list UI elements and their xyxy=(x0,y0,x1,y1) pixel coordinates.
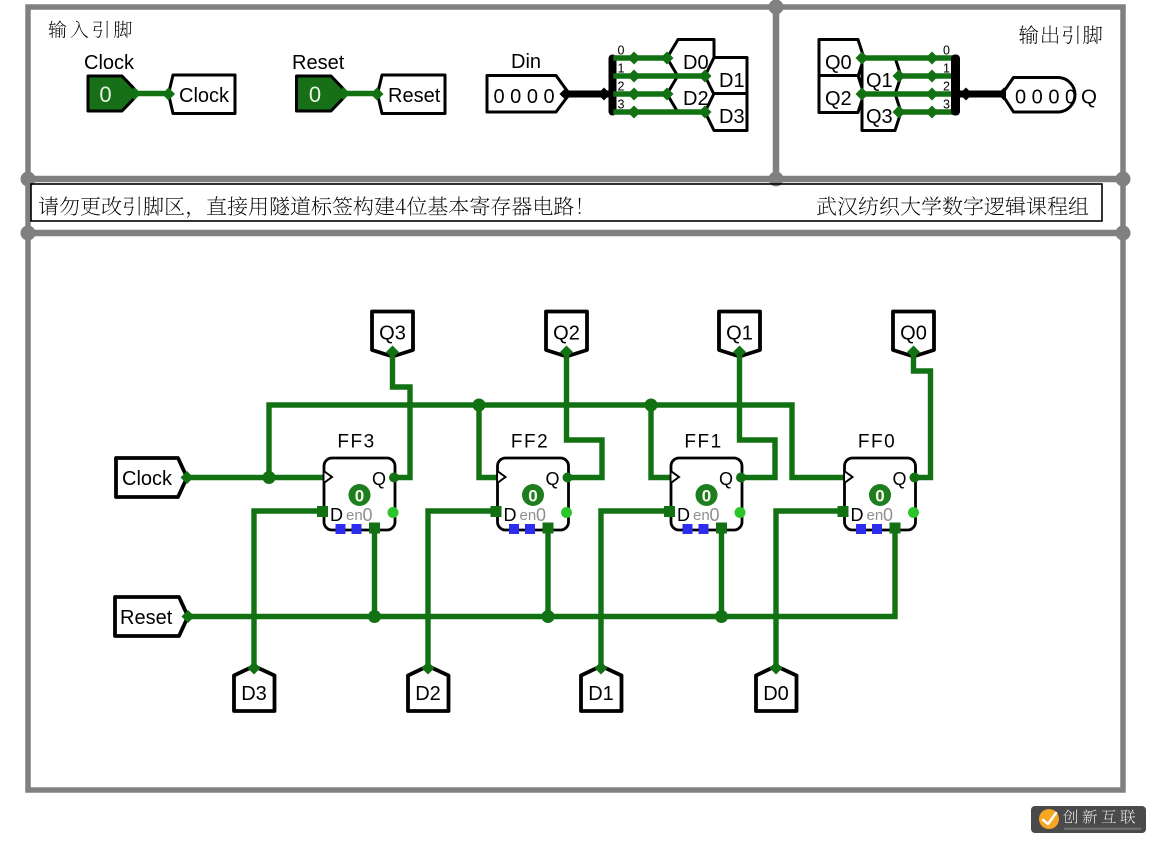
wire: reset drop to FF2 enable xyxy=(545,529,550,617)
pin end dot xyxy=(248,662,261,675)
wire: splitter bit0 to tunnel D0 xyxy=(616,55,667,60)
svg-text:0: 0 xyxy=(363,505,373,525)
frame: divider below notice band xyxy=(28,230,1123,237)
watermark subtext line xyxy=(1064,828,1141,831)
wire: tunnel Q3 to merger bit3 xyxy=(901,109,952,114)
wire xyxy=(959,91,1007,98)
frame junction dot xyxy=(769,0,784,15)
wire: clock drop to FF2 xyxy=(479,405,498,478)
svg-text:D3: D3 xyxy=(719,106,745,128)
pin end dot xyxy=(926,106,939,119)
svg-text:0 0 0 0: 0 0 0 0 xyxy=(494,86,555,108)
notice text right (course group) xyxy=(817,196,1088,215)
wire: reset drop to FF3 enable xyxy=(372,529,377,617)
watermark badge (创新互联 logo) xyxy=(1031,806,1146,833)
svg-text:Clock: Clock xyxy=(179,85,230,107)
svg-text:Clock: Clock xyxy=(84,52,135,74)
tunnel D1 (main area, points up) xyxy=(581,666,622,711)
wire: FF1 Q output to tunnel Q1 xyxy=(740,352,776,478)
wire: Clock pin to tunnel xyxy=(134,91,168,96)
wire: tunnel Q2 to merger bit2 xyxy=(864,91,952,96)
wire: splitter bit3 to tunnel D3 xyxy=(616,109,705,114)
flip-flop FF3 (D register subcircuit) xyxy=(317,432,399,535)
svg-text:D: D xyxy=(851,505,864,525)
tunnel Q1 (top) xyxy=(862,58,901,95)
wire: Clock tunnel to FF3 clock input xyxy=(187,475,324,480)
pin end dot xyxy=(699,70,712,83)
pin end dot xyxy=(128,87,141,100)
svg-text:D3: D3 xyxy=(241,683,267,705)
svg-text:FF0: FF0 xyxy=(858,432,896,453)
wire: Reset pin to tunnel xyxy=(343,91,377,96)
svg-text:Q3: Q3 xyxy=(866,106,893,128)
frame: divider below pin header boxes xyxy=(28,176,1123,183)
svg-text:en: en xyxy=(867,507,884,524)
pin end dot xyxy=(337,87,350,100)
section label output pins xyxy=(1019,25,1102,44)
wire: tunnel D2 to FF D input xyxy=(428,511,498,668)
svg-text:FF1: FF1 xyxy=(684,432,722,453)
junction: clock bus / FF2 drop xyxy=(473,399,486,412)
svg-text:Q1: Q1 xyxy=(866,70,893,92)
svg-text:0: 0 xyxy=(536,505,546,525)
svg-text:0: 0 xyxy=(309,82,321,107)
watermark text xyxy=(1063,810,1135,824)
merger bar (4x1) xyxy=(951,55,960,116)
svg-text:Q0: Q0 xyxy=(825,52,852,74)
frame junction dot xyxy=(769,172,784,187)
svg-text:0: 0 xyxy=(883,505,893,525)
pin end dot xyxy=(560,88,573,101)
notice text left xyxy=(39,196,581,218)
svg-text:Q: Q xyxy=(545,469,559,489)
tunnel Q0 (top) xyxy=(819,40,864,77)
wire: tunnel D3 to FF D input xyxy=(254,511,324,668)
svg-text:0: 0 xyxy=(710,505,720,525)
tunnel Q2 (main area, points down) xyxy=(546,312,587,357)
flip-flop FF2 (D register subcircuit) xyxy=(491,432,573,535)
svg-text:D0: D0 xyxy=(763,683,789,705)
wire: tunnel D0 to FF D input xyxy=(776,511,845,668)
svg-text:Q: Q xyxy=(719,469,733,489)
junction: clock bus / FF1 drop xyxy=(645,399,658,412)
splitter bar (1x4) xyxy=(609,55,617,116)
pin end dot xyxy=(628,52,641,65)
pin end dot xyxy=(422,662,435,675)
wire: FF2 Q output to tunnel Q2 xyxy=(567,352,603,478)
svg-text:D: D xyxy=(504,505,517,525)
tunnel Clock (top) xyxy=(169,75,236,114)
wire: FF0 Q output to tunnel Q0 xyxy=(914,352,931,478)
tunnel Reset (main area) xyxy=(115,597,188,636)
svg-text:D1: D1 xyxy=(719,70,745,92)
wire: splitter bit2 to tunnel D2 xyxy=(616,91,667,96)
input pin Clock (value 0) xyxy=(88,76,135,111)
tunnel Reset (top) xyxy=(378,75,446,114)
svg-text:Q0: Q0 xyxy=(900,323,927,345)
tunnel Q2 (top) xyxy=(819,76,864,113)
junction: reset / FF1 xyxy=(715,610,728,623)
pin end dot xyxy=(628,106,641,119)
svg-text:D2: D2 xyxy=(415,683,441,705)
pin end dot xyxy=(661,52,674,65)
pin end dot xyxy=(733,346,746,359)
pin end dot xyxy=(907,346,920,359)
pin end dot xyxy=(661,88,674,101)
svg-text:Q: Q xyxy=(892,469,906,489)
pin end dot xyxy=(893,106,906,119)
svg-text:0: 0 xyxy=(875,487,884,506)
wire: reset drop to FF1 enable xyxy=(719,529,724,617)
pin end dot xyxy=(181,471,194,484)
svg-text:Q2: Q2 xyxy=(825,88,852,110)
wire: splitter bit1 to tunnel D1 xyxy=(616,73,705,78)
svg-text:1: 1 xyxy=(943,62,950,76)
svg-text:0: 0 xyxy=(528,487,537,506)
pin end dot xyxy=(560,346,573,359)
svg-text:0: 0 xyxy=(943,44,950,58)
svg-text:en: en xyxy=(346,507,363,524)
wire xyxy=(566,91,609,98)
tunnel Q0 (main area, points down) xyxy=(893,312,934,357)
tunnel D1 (top) xyxy=(705,58,747,95)
output pin Q (value 0 0 0 0) xyxy=(1005,78,1075,113)
svg-text:D1: D1 xyxy=(588,683,614,705)
pin end dot xyxy=(628,88,641,101)
svg-text:Q3: Q3 xyxy=(379,323,406,345)
svg-text:FF3: FF3 xyxy=(337,432,375,453)
svg-text:Din: Din xyxy=(511,51,541,73)
frame junction dot xyxy=(1116,172,1131,187)
svg-text:en: en xyxy=(693,507,710,524)
svg-text:D: D xyxy=(330,505,343,525)
tunnel Q3 (top) xyxy=(862,94,901,131)
tunnel D0 (main area, points up) xyxy=(756,666,797,711)
pin end dot xyxy=(856,88,869,101)
junction: clock at FF3 xyxy=(263,471,276,484)
wire: tunnel D1 to FF D input xyxy=(601,511,671,668)
frame junction dot xyxy=(21,226,36,241)
pin end dot xyxy=(893,70,906,83)
pin end dot xyxy=(926,88,939,101)
svg-text:Q: Q xyxy=(372,469,386,489)
svg-text:Reset: Reset xyxy=(120,607,173,629)
svg-text:2: 2 xyxy=(943,80,950,94)
pin end dot xyxy=(598,88,611,101)
svg-text:0: 0 xyxy=(355,487,364,506)
pin end dot xyxy=(182,610,195,623)
pin end dot xyxy=(960,88,973,101)
svg-text:Q1: Q1 xyxy=(726,323,753,345)
frame junction dot xyxy=(21,172,36,187)
pin end dot xyxy=(856,52,869,65)
svg-text:D: D xyxy=(677,505,690,525)
svg-text:0: 0 xyxy=(702,487,711,506)
tunnel D0 (top) xyxy=(667,40,714,77)
svg-text:0: 0 xyxy=(99,82,111,107)
pin end dot xyxy=(926,52,939,65)
pin end dot xyxy=(386,346,399,359)
pin end dot xyxy=(699,106,712,119)
pin end dot xyxy=(628,70,641,83)
notice band inner black rectangle xyxy=(31,184,1102,221)
section label input pins xyxy=(49,21,132,39)
frame: vertical divider between input and output pin boxes xyxy=(773,7,780,179)
svg-text:Reset: Reset xyxy=(388,85,441,107)
wire: tunnel Q0 to merger bit0 xyxy=(864,55,952,60)
wire: clock drop to FF1 xyxy=(651,405,671,478)
tunnel D3 (main area, points up) xyxy=(234,666,275,711)
wire: clock bus to FF0 xyxy=(269,405,845,478)
svg-text:Reset: Reset xyxy=(292,52,345,74)
svg-text:3: 3 xyxy=(943,98,950,112)
flip-flop FF0 (D register subcircuit) xyxy=(838,432,920,535)
pin end dot xyxy=(926,70,939,83)
tunnel D3 (top) xyxy=(705,94,747,131)
pin end dot xyxy=(162,88,175,101)
flip-flop FF1 (D register subcircuit) xyxy=(664,432,746,535)
tunnel D2 (main area, points up) xyxy=(408,666,449,711)
wire: Reset tunnel across to FF0 enable xyxy=(188,529,895,617)
svg-text:0 0 0 0: 0 0 0 0 xyxy=(1015,87,1076,109)
svg-text:en: en xyxy=(520,507,537,524)
svg-text:Q2: Q2 xyxy=(553,323,580,345)
svg-text:FF2: FF2 xyxy=(511,432,549,453)
tunnel Q3 (main area, points down) xyxy=(372,312,413,357)
tunnel D2 (top) xyxy=(667,76,714,113)
pin end dot xyxy=(371,88,384,101)
svg-text:Clock: Clock xyxy=(122,468,173,490)
frame junction dot xyxy=(1116,226,1131,241)
input pin Reset (value 0) xyxy=(297,76,344,111)
junction: reset / FF2 xyxy=(542,610,555,623)
tunnel Clock (main area) xyxy=(116,458,187,497)
pin end dot xyxy=(595,662,608,675)
pin end dot xyxy=(770,662,783,675)
wire: tunnel Q1 to merger bit1 xyxy=(901,73,952,78)
junction: reset / FF3 xyxy=(368,610,381,623)
tunnel Q1 (main area, points down) xyxy=(719,312,760,357)
pin end dot xyxy=(998,88,1011,101)
wire: FF3 Q output to tunnel Q3 xyxy=(393,352,411,478)
input pin Din (value 0 0 0 0) xyxy=(487,76,567,113)
svg-text:Q: Q xyxy=(1081,86,1097,109)
